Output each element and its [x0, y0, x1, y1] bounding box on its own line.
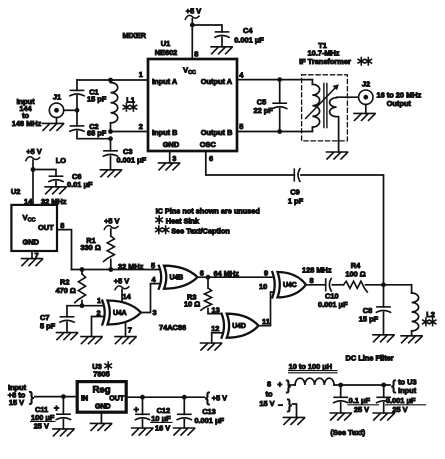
ground under L2 [401, 336, 422, 343]
inductor L1 [108, 78, 113, 83]
svg-text:5: 5 [239, 122, 243, 131]
ground under 0.001uF [373, 413, 394, 420]
wire U2 OUT to 32MHz line [57, 230, 72, 270]
svg-text:74AC86: 74AC86 [159, 323, 186, 332]
svg-text:3: 3 [153, 308, 157, 317]
svg-text:Output: Output [387, 99, 412, 108]
svg-text:U2: U2 [11, 187, 20, 196]
wire pin 2 [111, 131, 149, 133]
svg-text:NE602: NE602 [155, 48, 178, 57]
inductor L2 [411, 285, 413, 293]
capacitor C3 [110, 139, 112, 151]
xor gate U4A [108, 301, 142, 325]
capacitor C7 [67, 306, 82, 317]
svg-text:10 μF: 10 μF [151, 414, 171, 423]
svg-text:L2: L2 [426, 310, 435, 319]
transformer T1 core [324, 84, 327, 128]
svg-text:25 V: 25 V [34, 422, 49, 431]
ground under C12 [132, 428, 153, 435]
svg-text:{: { [205, 390, 210, 405]
ground U3 GND pin [100, 412, 102, 423]
svg-text:MIXER: MIXER [123, 31, 147, 40]
svg-text:14: 14 [123, 292, 132, 301]
wire 32 MHz node [72, 269, 160, 271]
svg-text:+5 V: +5 V [186, 7, 201, 16]
svg-text:(See Text): (See Text) [330, 428, 365, 437]
ground under U4D pin 12 [201, 343, 222, 350]
svg-text:0.001 μF: 0.001 μF [386, 396, 416, 405]
svg-text:22 pF: 22 pF [254, 106, 274, 115]
xor gate U4C [278, 272, 307, 297]
svg-text:DC Line Filter: DC Line Filter [346, 354, 394, 363]
capacitor C6 [33, 170, 56, 177]
svg-text:2: 2 [139, 122, 143, 131]
svg-text:330 Ω: 330 Ω [80, 243, 100, 252]
ground under C7 [57, 333, 78, 340]
svg-text:0.001 μF: 0.001 μF [234, 35, 264, 44]
svg-text:Reg: Reg [92, 385, 110, 396]
svg-text:10 to 100 μH: 10 to 100 μH [289, 362, 333, 371]
svg-text:U4B: U4B [170, 275, 184, 282]
ground under C13 [174, 428, 195, 435]
svg-text:0.001 μF: 0.001 μF [194, 416, 224, 425]
svg-text:1: 1 [97, 296, 101, 305]
svg-text:25 V: 25 V [392, 405, 407, 414]
svg-text:15 V: 15 V [259, 399, 274, 408]
svg-text:OUT: OUT [109, 396, 125, 403]
svg-text:}: } [287, 397, 292, 412]
svg-text:GND: GND [95, 403, 111, 410]
node output junction [381, 282, 386, 287]
svg-text:8: 8 [60, 221, 64, 230]
svg-text:1 pF: 1 pF [288, 196, 304, 205]
inductor 10-100uH [288, 384, 295, 386]
svg-text:470 Ω: 470 Ω [56, 286, 76, 295]
ground under C11 [53, 429, 74, 436]
svg-text:Input A: Input A [152, 77, 178, 86]
svg-text:J2: J2 [362, 80, 370, 89]
svg-text:128 MHz: 128 MHz [302, 265, 332, 274]
svg-text:9: 9 [264, 268, 268, 277]
svg-text:Heat Sink: Heat Sink [166, 216, 200, 225]
svg-text:0.001 μF: 0.001 μF [318, 300, 348, 309]
svg-text:Output A: Output A [201, 77, 233, 86]
ground minus lead [284, 417, 305, 424]
wire U4D output pin 11 to U4C pin 10 [259, 292, 273, 326]
svg-text:8: 8 [194, 50, 198, 59]
svg-text:6: 6 [209, 154, 213, 163]
op-amp U1 NE602 mixer box [148, 59, 237, 151]
svg-text:}: } [29, 389, 34, 404]
transformer T1 secondary winding [330, 98, 337, 117]
svg-text:6: 6 [200, 268, 204, 277]
svg-text:0.01 μF: 0.01 μF [67, 180, 93, 189]
svg-text:+: + [277, 379, 282, 389]
transformer T1 shield dashed box [302, 75, 348, 141]
wire top rail to pin 1 [77, 79, 148, 81]
svg-text:7: 7 [128, 325, 132, 334]
ground under T1 secondary [327, 152, 348, 159]
ground under 0.1uF [330, 413, 351, 420]
svg-text:GND: GND [23, 238, 40, 247]
ground under J2 [365, 104, 367, 113]
wire secondary to J2 [337, 96, 359, 99]
svg-text:C9: C9 [290, 187, 299, 196]
wire minus lead to ground [293, 404, 297, 417]
svg-text:25 V: 25 V [354, 405, 369, 414]
capacitor 0.001uF filter [383, 385, 385, 397]
ground under J1 [56, 118, 58, 124]
ground pin 7 of U2 [31, 251, 33, 259]
svg-text:+: + [54, 403, 59, 413]
svg-text:5: 5 [151, 261, 155, 270]
transformer T1 tuning arrow [306, 88, 336, 119]
svg-text:See Text/Caption: See Text/Caption [171, 226, 230, 235]
svg-text:C10: C10 [325, 291, 339, 300]
svg-text:2: 2 [97, 309, 101, 318]
wire secondary to ground [337, 117, 339, 152]
wire U4A pin 2 to ground [92, 317, 104, 337]
transformer T1 primary winding [311, 80, 313, 85]
svg-text:100 μF: 100 μF [31, 413, 55, 422]
ground under C8 [373, 335, 394, 342]
regulator U3 box [77, 382, 126, 413]
svg-text:0.001 μF: 0.001 μF [117, 156, 147, 165]
wire U4D pin 12 to ground [212, 333, 222, 343]
svg-text:1: 1 [139, 70, 143, 79]
svg-text:7805: 7805 [93, 370, 109, 379]
svg-text:U4C: U4C [283, 282, 297, 289]
xor gate U4B [164, 266, 198, 289]
svg-text:OUT: OUT [38, 223, 54, 232]
resistor R3 [207, 277, 209, 288]
capacitor C2 [76, 110, 78, 126]
svg-text:13: 13 [212, 305, 220, 314]
svg-text:Input: Input [398, 386, 417, 395]
xor gate U4D [227, 314, 259, 338]
resistor R1 [110, 229, 112, 236]
svg-text:IF Transformer: IF Transformer [299, 57, 351, 66]
ground under U4A pin 2 [81, 337, 102, 344]
svg-text:LO: LO [56, 156, 67, 165]
svg-text:11: 11 [262, 317, 270, 326]
wire pin 5 to T1 [237, 131, 312, 133]
svg-text:5 pF: 5 pF [40, 322, 56, 331]
svg-text:15 V: 15 V [9, 398, 24, 407]
svg-text:16 to 20 MHz: 16 to 20 MHz [377, 90, 422, 99]
svg-text:C4: C4 [243, 26, 253, 35]
wire J1 to C1/C2 node [64, 109, 77, 111]
capacitor C13 [183, 397, 185, 414]
wire +5V to pin 8 and C4 [191, 19, 193, 59]
capacitor C8 [383, 285, 385, 307]
svg-text:0.1 μF: 0.1 μF [349, 396, 371, 405]
svg-text:to: to [266, 390, 273, 399]
svg-text:100 Ω: 100 Ω [345, 269, 365, 278]
capacitor C5 [277, 77, 282, 82]
note heat sink [156, 216, 162, 223]
wire U4C output to C10 [306, 284, 326, 286]
wire pin 4 to T1 [237, 79, 312, 81]
svg-text:+5 V: +5 V [104, 216, 119, 225]
svg-text:C13: C13 [202, 407, 216, 416]
ground U4A pin 7 [125, 324, 127, 337]
svg-text:15 pF: 15 pF [359, 315, 379, 324]
svg-text:8: 8 [267, 380, 271, 389]
svg-text:32 MHz: 32 MHz [118, 262, 144, 271]
wire R2 node to U4A pin 1 [82, 305, 103, 307]
svg-text:16 V: 16 V [155, 423, 170, 432]
svg-text:3: 3 [172, 154, 176, 163]
capacitor C9 [293, 169, 295, 181]
svg-text:Input B: Input B [152, 128, 177, 137]
svg-text:{: { [391, 378, 396, 393]
svg-text:GND: GND [163, 140, 180, 149]
svg-text:68 pF: 68 pF [87, 129, 107, 138]
svg-text:10: 10 [259, 282, 267, 291]
wire C9 to output node [301, 175, 384, 285]
svg-text:IC Pins not shown are unused: IC Pins not shown are unused [156, 206, 260, 215]
svg-text:10.7-MHz: 10.7-MHz [307, 49, 339, 58]
ground under C3 [100, 170, 121, 177]
capacitor C1 [76, 80, 78, 90]
svg-text:to U3: to U3 [398, 377, 416, 386]
svg-text:Output B: Output B [201, 128, 233, 137]
wire OSC pin 6 [206, 151, 294, 175]
oscillator U2 box [11, 205, 57, 251]
resistor R2 [80, 267, 85, 272]
svg-text:U4A: U4A [113, 310, 127, 317]
ground under C4 [211, 47, 232, 54]
svg-text:10 Ω: 10 Ω [184, 300, 200, 309]
svg-text:J1: J1 [53, 93, 61, 102]
wire U3 OUT to +5V [126, 396, 204, 398]
svg-text:IN: IN [81, 396, 88, 403]
svg-text:U1: U1 [161, 39, 170, 48]
wire input to U3 IN [35, 396, 77, 398]
svg-text:OSC: OSC [200, 140, 217, 149]
note see text [156, 226, 162, 233]
svg-text:+5 V: +5 V [114, 277, 129, 286]
capacitor 0.1uF filter [340, 385, 342, 397]
svg-text:U4D: U4D [232, 323, 246, 330]
svg-text:15 pF: 15 pF [87, 94, 107, 103]
capacitor C4 [215, 31, 228, 33]
svg-text:12: 12 [211, 324, 219, 333]
capacitor C10 [325, 279, 327, 291]
ground under C6 [45, 187, 66, 194]
svg-text:−: − [278, 400, 283, 410]
svg-text:8: 8 [310, 276, 314, 285]
wire U4A output pin 3 to U4B pin 4 [141, 284, 159, 313]
svg-text:+: + [134, 404, 139, 414]
ground pin 3 [169, 151, 171, 163]
svg-text:+5 V: +5 V [212, 393, 227, 402]
svg-text:+5 V: +5 V [26, 147, 41, 156]
svg-text:64 MHz: 64 MHz [214, 269, 240, 278]
svg-text:148 MHz: 148 MHz [12, 119, 42, 128]
resistor R4 [332, 284, 343, 286]
wire filter output [334, 384, 390, 386]
